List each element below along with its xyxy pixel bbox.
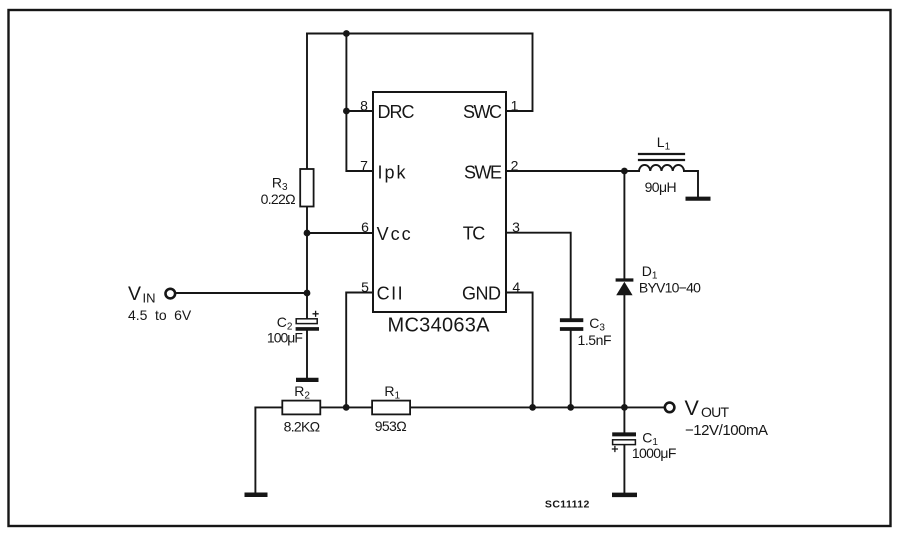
svg-text:5: 5	[361, 279, 369, 295]
svg-text:Ipk: Ipk	[378, 162, 407, 182]
svg-text:7: 7	[360, 157, 368, 173]
svg-text:V: V	[685, 396, 700, 420]
svg-text:100μF: 100μF	[267, 330, 303, 346]
svg-text:Vcc: Vcc	[377, 224, 411, 244]
svg-text:90μH: 90μH	[645, 179, 677, 195]
svg-text:GND: GND	[462, 284, 501, 304]
svg-text:953Ω: 953Ω	[375, 418, 407, 434]
svg-text:DRC: DRC	[378, 102, 415, 122]
svg-text:8: 8	[360, 97, 368, 113]
svg-text:1000μF: 1000μF	[632, 445, 677, 461]
svg-text:1.5nF: 1.5nF	[578, 332, 612, 348]
svg-text:1: 1	[511, 97, 519, 113]
svg-text:BYV10−40: BYV10−40	[639, 280, 701, 296]
svg-text:V: V	[128, 283, 141, 305]
svg-text:IN: IN	[143, 290, 156, 305]
svg-text:SWE: SWE	[464, 163, 502, 183]
svg-text:TC: TC	[463, 224, 486, 244]
svg-text:2: 2	[511, 157, 519, 173]
svg-text:8.2KΩ: 8.2KΩ	[284, 418, 321, 434]
svg-text:SWC: SWC	[463, 102, 502, 122]
svg-text:3: 3	[512, 219, 520, 235]
svg-text:MC34063A: MC34063A	[388, 315, 491, 337]
svg-text:−12V/100mA: −12V/100mA	[685, 422, 768, 439]
svg-text:4: 4	[512, 279, 520, 295]
svg-text:CII: CII	[377, 284, 403, 304]
svg-text:OUT: OUT	[701, 404, 729, 420]
svg-text:0.22Ω: 0.22Ω	[261, 191, 296, 207]
svg-text:6: 6	[361, 219, 369, 235]
svg-text:4.5 to 6V: 4.5 to 6V	[128, 307, 192, 323]
svg-text:SC11112: SC11112	[545, 499, 590, 511]
